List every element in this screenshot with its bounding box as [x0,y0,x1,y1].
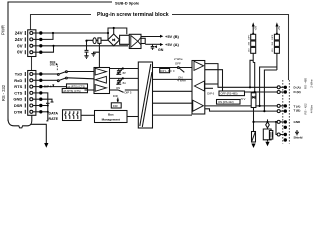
svg-text:ON (RS-422): ON (RS-422) [218,100,234,104]
svg-text:DIR: DIR [113,104,118,108]
svg-text:TxD: TxD [15,72,23,77]
svg-text:DIR: DIR [113,94,118,98]
svg-text:4-Wire: 4-Wire [309,104,313,113]
svg-text:DIP 1..3: DIP 1..3 [160,70,170,73]
svg-text:GN: GN [158,48,164,52]
svg-text:+5 V: +5 V [240,97,246,101]
svg-text:DIP 5: DIP 5 [125,91,132,95]
svg-text:BP: BP [123,72,127,75]
svg-text:RS - 232: RS - 232 [1,84,6,101]
svg-text:D (B): D (B) [294,90,301,94]
svg-text:Plug-in screw terminal block: Plug-in screw terminal block [97,12,169,18]
svg-text:DTR: DTR [14,109,22,114]
svg-text:T (B): T (B) [294,109,301,113]
svg-text:DATA: DATA [49,111,59,115]
svg-text:DTE: DTE [50,63,56,67]
svg-text:ON: ON [116,86,120,90]
svg-text:DIP8: DIP8 [272,34,274,40]
svg-text:RxD: RxD [14,78,22,83]
svg-text:on (RTS) (CTS): on (RTS) (CTS) [68,85,86,88]
svg-text:+5V: +5V [277,25,281,30]
svg-text:DIP 6: DIP 6 [207,92,214,96]
svg-text:Management: Management [102,118,120,122]
svg-text:PWR: PWR [1,25,6,35]
svg-text:0V: 0V [17,50,22,55]
svg-text:DIP 4: DIP 4 [44,85,52,89]
svg-text:DSR: DSR [14,103,23,108]
svg-text:24V: 24V [15,37,23,42]
svg-text:Bus: Bus [108,113,114,117]
svg-text:4 Wire: 4 Wire [177,79,186,83]
svg-text:OFF (RS-485): OFF (RS-485) [221,92,238,96]
svg-text:0V: 0V [17,43,22,48]
svg-text:off (RTS) (CTS): off (RTS) (CTS) [63,90,81,93]
svg-text:OFF: OFF [175,61,181,65]
svg-text:RS - 485: RS - 485 [304,78,308,89]
svg-text:Shield: Shield [294,136,303,140]
svg-text:CTS: CTS [14,90,22,95]
svg-text:D (A): D (A) [294,85,301,89]
svg-text:RTS: RTS [14,84,22,89]
svg-text:24V: 24V [15,31,23,36]
svg-text:RATE: RATE [49,117,59,121]
svg-text:+5V (A): +5V (A) [165,42,180,47]
svg-text:BA: BA [123,82,127,85]
svg-text:+5V: +5V [253,25,257,30]
svg-text:RS - 422: RS - 422 [304,103,308,114]
svg-text:2-Wire: 2-Wire [309,79,313,88]
svg-text:DIP7: DIP7 [249,34,251,40]
svg-text:SUB-D 9pole: SUB-D 9pole [115,0,140,5]
svg-text:GND: GND [294,120,302,124]
svg-text:+5V (B): +5V (B) [165,34,180,39]
svg-text:GND: GND [13,97,22,102]
